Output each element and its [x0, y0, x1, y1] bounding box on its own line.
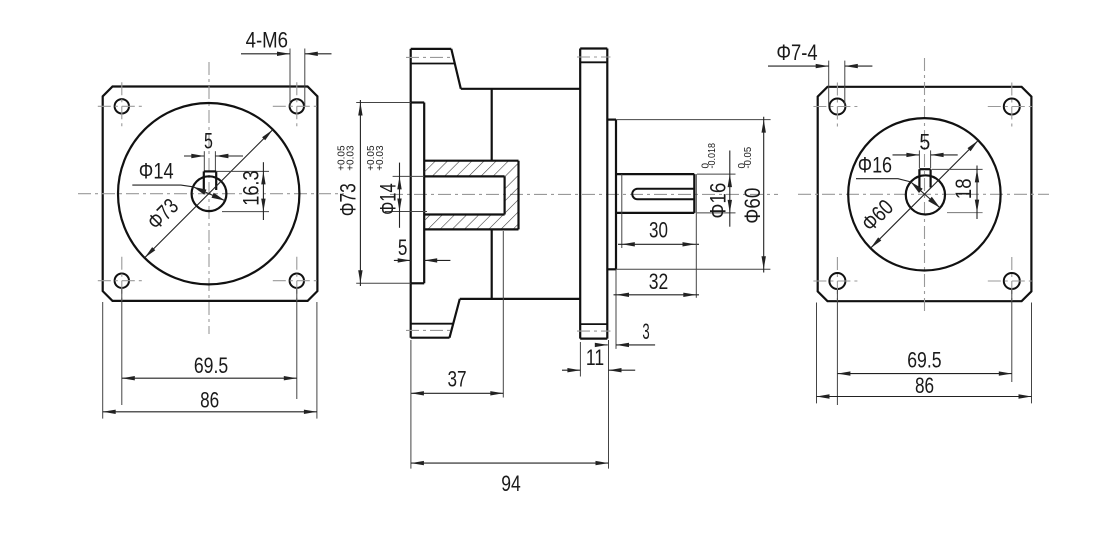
svg-text:Φ16: Φ16 — [706, 183, 731, 219]
left view: dimension 5 keyway width — [203, 151, 205, 170]
middle view: input sleeve outer bottom — [424, 228, 518, 230]
svg-text:-0.05: -0.05 — [743, 146, 754, 168]
svg-text:69.5: 69.5 — [907, 347, 941, 372]
middle view: bottom ear chamfer line — [411, 323, 453, 325]
middle view: input sleeve outer top — [424, 160, 518, 162]
svg-text:30: 30 — [649, 218, 668, 243]
svg-text:3: 3 — [642, 319, 649, 344]
middle view: dimension phi14 with tolerance — [393, 175, 425, 177]
middle view: pilot recess face phi73 — [423, 103, 425, 284]
left view: dimension 69.5 — [121, 289, 123, 406]
middle view: output flange bottom bolt centerline — [577, 330, 611, 332]
middle view: output shaft top — [616, 173, 694, 175]
svg-text:4-M6: 4-M6 — [246, 28, 288, 53]
svg-text:11: 11 — [586, 345, 604, 370]
left view: square flange outline with chamfered corners — [103, 87, 318, 301]
svg-text:69.5: 69.5 — [194, 353, 228, 378]
middle view: output boss top cap — [607, 118, 616, 120]
middle view: pilot recess bottom cap — [411, 282, 425, 284]
middle view: dimension phi60 with tolerance — [616, 119, 771, 121]
left view: diameter line phi73 with arrowheads — [145, 130, 273, 258]
svg-text:5: 5 — [204, 129, 213, 154]
svg-text:Φ16: Φ16 — [858, 153, 892, 178]
middle view: input bore top phi14 — [424, 175, 504, 177]
svg-text:5: 5 — [919, 130, 930, 155]
right view: square flange outline with chamfered corners — [818, 87, 1032, 301]
left view: horizontal centerline — [78, 193, 344, 195]
left view: dimension 86 — [102, 302, 104, 419]
middle view: shaft keyway round end — [632, 189, 637, 200]
middle view: pilot recess top cap — [411, 101, 425, 103]
right view: bolt hole top-left phi7 — [829, 99, 845, 115]
middle view: output flange top chamfer line — [580, 61, 607, 63]
svg-text:16.3: 16.3 — [239, 170, 264, 205]
svg-text:Φ14: Φ14 — [139, 159, 174, 184]
svg-text:86: 86 — [200, 388, 219, 413]
left view: keyway slot — [203, 171, 205, 190]
right view: shaft hole phi16 — [906, 175, 945, 214]
middle view: output flange top bolt centerline — [577, 56, 611, 58]
right view: diameter line phi60 with arrowheads — [871, 140, 979, 248]
right view: dimension phi7-4 — [828, 61, 830, 107]
right view: pilot circle phi60 — [848, 118, 1000, 270]
left view: bolt hole bottom-left M6 — [115, 274, 129, 288]
middle view: dimension phi73 with tolerance — [356, 102, 411, 104]
svg-text:18: 18 — [951, 179, 976, 200]
middle view: dimension phi16 with tolerance — [697, 173, 736, 175]
middle view: input flange left face — [410, 49, 412, 338]
middle view: dimension 30 — [621, 174, 623, 248]
middle view: output flange left face — [579, 49, 581, 339]
svg-text:86: 86 — [915, 373, 934, 398]
middle view: output flange top edge — [580, 47, 607, 49]
right view: diameter arrows phi16 — [911, 182, 940, 208]
middle view: input bore bottom phi14 — [424, 213, 504, 215]
left view: leader phi14 — [132, 185, 193, 187]
svg-text:37: 37 — [447, 367, 466, 392]
left view: label phi73 — [142, 193, 183, 234]
right view: horizontal centerline — [798, 193, 1049, 195]
middle view: input flange bottom edge — [411, 337, 450, 339]
middle view: bottom ear bolt centerline — [406, 329, 454, 331]
middle view: output boss bottom cap — [607, 268, 616, 270]
right view: leader phi16 — [856, 179, 911, 182]
middle view: dimension 3 — [615, 269, 617, 349]
left view: dimension 16.3 — [216, 170, 269, 172]
right view: dimension 5 keyway width — [918, 150, 920, 168]
svg-text:Φ60: Φ60 — [740, 188, 765, 224]
middle view: top-left corner slant — [451, 49, 461, 89]
middle view: shaft keyway slot bottom — [638, 198, 695, 200]
svg-text:+0.03: +0.03 — [345, 145, 356, 171]
right view: keyway slot — [918, 169, 920, 187]
right view: bolt hole bottom-right phi7 — [1004, 273, 1020, 289]
right view: dimension 69.5 — [836, 290, 838, 406]
middle view: output flange right face — [606, 49, 608, 339]
middle view: dimension 32 — [695, 174, 697, 298]
middle view: top ear bolt centerline — [406, 56, 454, 58]
middle view: housing top edge — [461, 88, 580, 90]
middle view: housing bottom edge — [460, 298, 580, 300]
right view: bolt hole bottom-left phi7 — [829, 273, 845, 289]
left view: vertical centerline — [208, 62, 210, 334]
svg-text:+0.03: +0.03 — [375, 145, 386, 171]
middle view: top ear chamfer line — [411, 63, 455, 65]
right view: dimension 18 — [932, 168, 983, 170]
right view: vertical centerline — [924, 58, 926, 312]
svg-text:94: 94 — [501, 471, 521, 496]
left view: diameter arrows phi14 — [193, 187, 225, 201]
svg-text:Φ7-4: Φ7-4 — [776, 40, 817, 65]
middle view: output boss face phi60 — [615, 120, 617, 270]
middle view: bottom-left corner slant — [450, 299, 460, 338]
middle view: dimension 37 — [502, 231, 504, 398]
left view: shaft hole phi14 — [192, 176, 227, 211]
middle view: dimension 11 — [579, 342, 581, 377]
middle view: dimension 94 — [410, 340, 412, 469]
middle view: input sleeve end — [517, 161, 519, 230]
middle view: input bore end wall — [504, 176, 506, 214]
middle view: shaft keyway slot top — [638, 188, 695, 190]
middle view: output flange bottom edge — [580, 338, 607, 340]
svg-text:Φ14: Φ14 — [376, 183, 401, 215]
middle view: input flange top edge — [411, 48, 452, 50]
svg-text:Φ73: Φ73 — [336, 183, 361, 216]
left view: bolt hole bottom-right M6 — [290, 274, 304, 288]
right view: label phi60 — [856, 194, 898, 236]
middle view: output flange bottom chamfer line — [580, 323, 607, 325]
svg-text:-0.018: -0.018 — [707, 143, 718, 169]
left view: dimension 4-M6 — [289, 49, 291, 107]
left view: bolt hole top-left M6 — [115, 99, 129, 113]
middle view: main axis centerline — [390, 193, 778, 195]
right view: bolt hole top-right phi7 — [1004, 99, 1020, 115]
svg-text:5: 5 — [398, 235, 408, 260]
middle view: output shaft end — [693, 174, 695, 213]
middle view: dimension 5 recess depth — [394, 259, 411, 261]
middle view: housing step edge — [491, 89, 493, 161]
left view: pilot circle phi73 — [118, 103, 299, 284]
right view: dimension 86 — [816, 303, 818, 404]
left view: bolt hole top-right M6 — [290, 99, 304, 113]
svg-text:32: 32 — [649, 269, 669, 294]
middle view: output shaft bottom — [616, 212, 694, 214]
